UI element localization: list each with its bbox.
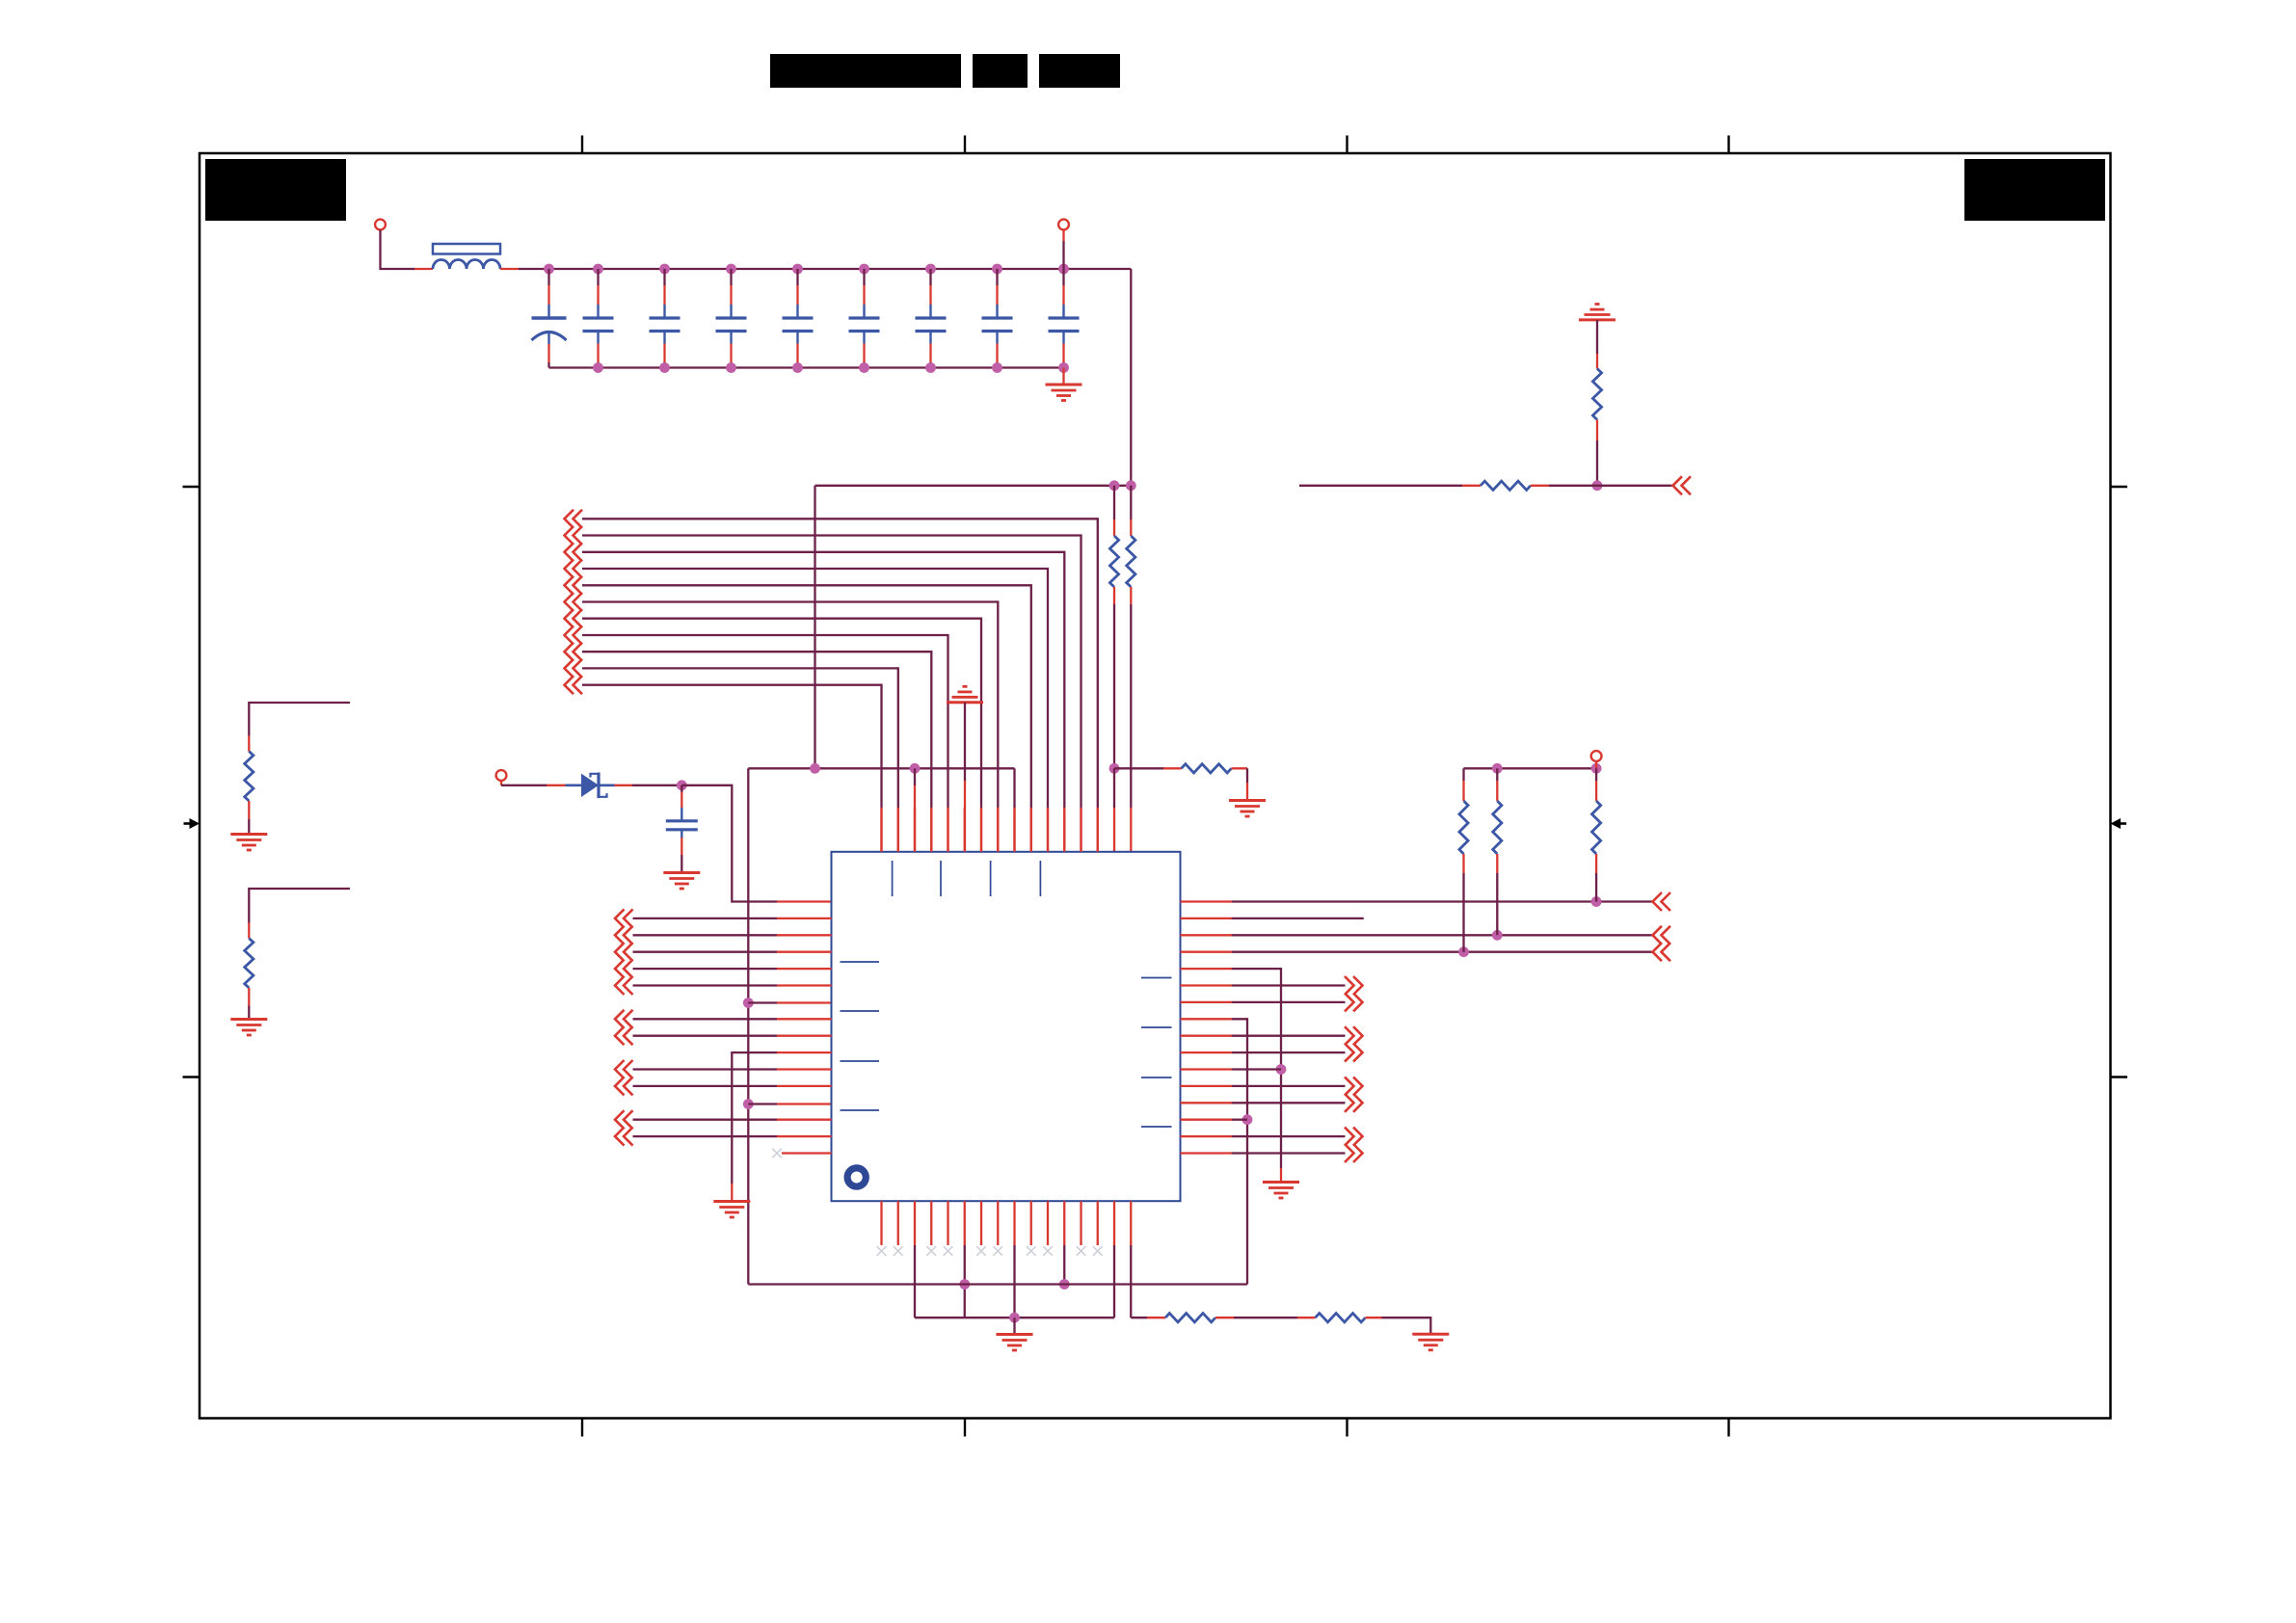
wire R9 to GND10	[248, 801, 250, 819]
wire bus9	[582, 652, 931, 808]
junction right pin3/Rb	[1492, 930, 1503, 941]
ic top pin stubs	[880, 808, 882, 852]
junction h2 gnd	[1009, 1313, 1020, 1323]
title redaction bar 1	[770, 54, 961, 88]
capacitor C6	[863, 305, 865, 318]
wire bus2	[582, 536, 1081, 809]
off-page arrow Rpin1	[1653, 892, 1663, 911]
wire bus7	[582, 619, 981, 808]
off-page arrow bus7	[565, 609, 574, 627]
wire IC right pin 10	[1181, 1051, 1233, 1053]
wire R7 to R8	[1215, 1317, 1234, 1318]
wire net776 vertical	[747, 768, 749, 1284]
wire to IC left pin 3	[633, 934, 778, 936]
resistor R5	[1493, 801, 1502, 854]
ic U1 internal tick top 3	[990, 861, 992, 896]
wire L1 corner to IC pin9	[1013, 768, 1015, 808]
off-page arrow Lpin3	[615, 926, 625, 945]
resistor R13	[1109, 536, 1118, 587]
wire net776 to pin L7	[748, 1001, 777, 1003]
off-page arrow Rpin9	[1353, 1026, 1363, 1045]
resistor R7	[1165, 1314, 1215, 1322]
ic U1 internal tick right 3	[1141, 1077, 1172, 1078]
capacitor C8 bottom lead	[996, 344, 998, 363]
border tick left 2	[183, 1076, 200, 1078]
off-page arrow Lpin4	[615, 943, 625, 961]
terminal J3	[496, 770, 507, 781]
wire GND2 to R1	[1596, 320, 1598, 354]
capacitor C9 bottom lead	[1062, 344, 1064, 363]
wire to IC left pin 10 (grounded)	[732, 1052, 777, 1184]
wire D1 to node	[615, 785, 633, 786]
capacitor C6 top lead	[863, 269, 865, 285]
junction bottom rail 4	[792, 362, 803, 373]
off-page arrow Lpin2	[615, 909, 625, 927]
resistor R3	[1182, 764, 1232, 773]
wire bus4	[582, 569, 1048, 808]
capacitor C10	[681, 808, 682, 821]
wire node B to R14col	[1130, 486, 1132, 519]
capacitor C7	[929, 305, 931, 318]
junction diode node	[677, 780, 687, 790]
off-page arrow Rpin15	[1353, 1128, 1363, 1146]
resistor R14	[1127, 536, 1135, 587]
border arrow right	[2119, 822, 2127, 825]
wire IC right pin 12	[1181, 1085, 1233, 1087]
capacitor C4 bottom lead	[730, 344, 732, 363]
off-page arrow bus4	[565, 560, 574, 578]
off-page arrow bus3	[565, 543, 574, 561]
capacitor C10 top lead	[681, 785, 682, 792]
junction gndcol pin11	[1276, 1064, 1287, 1075]
ic U1 pin1 marker	[847, 1168, 866, 1186]
wire GND3 to IC pin6	[964, 703, 966, 781]
ground GND1	[1046, 384, 1082, 386]
off-page arrow bus8	[565, 626, 574, 645]
capacitor C4	[730, 305, 732, 318]
capacitor C8 top lead	[996, 269, 998, 285]
wire bottom pin6 down	[964, 1245, 966, 1317]
wire to IC left pin 6	[633, 984, 778, 986]
wire IC right pin14	[1181, 1119, 1233, 1121]
wire node A to R3col	[1113, 486, 1115, 519]
border tick bottom 4	[1727, 1419, 1729, 1437]
wire R6 top lead	[1595, 768, 1597, 781]
terminal J1	[375, 220, 386, 230]
off-page arrow Rpin3	[1653, 926, 1663, 945]
wire IC right pin1 net	[1181, 900, 1233, 902]
resistor R10	[245, 939, 254, 988]
wire R1 to node	[1596, 420, 1598, 441]
wire R14 to pin16	[1130, 587, 1132, 604]
no-connect bottom pin 2	[894, 1246, 903, 1256]
ic U1 internal tick left 2	[841, 1010, 880, 1012]
off-page arrow Lpin9	[615, 1026, 625, 1045]
wire bus5	[582, 585, 1031, 808]
wire IC right pin11	[1181, 1068, 1233, 1070]
capacitor C8	[996, 305, 998, 318]
wire IC right pin 13	[1181, 1102, 1233, 1104]
junction pin15 node	[1109, 763, 1120, 774]
wire IC right pin8 down	[1181, 1018, 1233, 1020]
off-page arrow Lpin14	[615, 1110, 625, 1129]
wire vdd distribution horizontal	[815, 485, 1132, 487]
resistor R4	[1459, 801, 1468, 854]
wire rail corner down	[1130, 269, 1132, 486]
ground GND3 (power flag)	[963, 685, 968, 688]
ic U1 internal tick right 2	[1141, 1026, 1172, 1028]
border frame	[200, 153, 2111, 1419]
junction net776 pin L7	[743, 998, 754, 1008]
wire bottom cap rail	[549, 366, 1064, 368]
capacitor C9	[1062, 305, 1064, 318]
wire R2 to arrow	[1531, 485, 1549, 487]
wire pin-row node line L1	[748, 767, 1014, 769]
title redaction bar 2	[973, 54, 1028, 88]
off-page arrow Lpin6	[615, 976, 625, 995]
junction rail cap 4	[726, 264, 736, 275]
capacitor C7 top lead	[929, 269, 931, 285]
wire bottom pin16 down	[1130, 1245, 1132, 1317]
junction rail Rc/J4	[1591, 763, 1602, 774]
capacitor C1 (polarized) top lead	[547, 269, 549, 285]
border tick bottom 3	[1346, 1419, 1348, 1437]
ground GND9	[1412, 1333, 1449, 1336]
off-page arrow net1	[1673, 476, 1683, 494]
wire R10 to GND11	[248, 988, 250, 1006]
wire rail to ground GND1	[1062, 368, 1064, 386]
corner label box top-right	[1964, 159, 2105, 221]
wire bottom rail h1	[748, 1283, 1247, 1285]
no-connect bottom pin 8	[993, 1246, 1002, 1256]
off-page arrow bus5	[565, 576, 574, 595]
ground GND6	[713, 1200, 750, 1203]
wire IC right pin 6	[1181, 984, 1233, 986]
junction bottom rail 5	[859, 362, 869, 373]
junction x1294 pin14	[1242, 1114, 1253, 1125]
wire L1 down to IC pin3	[914, 768, 916, 785]
capacitor C5 bottom lead	[796, 344, 798, 363]
junction rail cap 8	[992, 264, 1002, 275]
resistor R2	[1481, 481, 1531, 490]
junction net776 pin L13	[743, 1099, 754, 1109]
junction vdd node B	[1126, 480, 1136, 491]
wire to IC left pin 4	[633, 951, 778, 953]
off-page arrow Rpin10	[1353, 1044, 1363, 1062]
no-connect bottom pin 4	[926, 1246, 936, 1256]
ground GND4	[1229, 799, 1266, 802]
capacitor C5 top lead	[796, 269, 798, 285]
capacitor C9 top lead	[1062, 269, 1064, 285]
wire J3 to D1	[500, 781, 502, 785]
off-page arrow Lpin11	[615, 1060, 625, 1078]
off-page arrow bus9	[565, 643, 574, 661]
wire IC right pin 15	[1181, 1135, 1233, 1137]
junction bottom rail 8	[1058, 362, 1069, 373]
border tick right 2	[2111, 1076, 2128, 1078]
wire h2 gnd stem	[1013, 1317, 1015, 1334]
ic U1 internal tick right 4	[1141, 1126, 1172, 1128]
off-page arrow Rpin4	[1653, 943, 1663, 961]
wire pin16 to R7	[1131, 1317, 1147, 1318]
junction rail cap 1	[544, 264, 554, 275]
junction bottom rail 3	[726, 362, 736, 373]
capacitor C4 top lead	[730, 269, 732, 285]
resistor R6	[1592, 801, 1601, 854]
inductor L1	[433, 244, 500, 254]
junction right pin4/Ra	[1458, 946, 1469, 957]
wire IC right pin5 to gnd col	[1181, 968, 1233, 970]
ground GND7	[1263, 1181, 1299, 1184]
border tick right 1	[2111, 486, 2128, 488]
border tick top 3	[1346, 136, 1348, 154]
wire to IC left pin 14	[633, 1119, 778, 1121]
junction bottom rail 7	[992, 362, 1002, 373]
diode D1 (schottky)	[566, 784, 582, 786]
no-connect bottom pin 11	[1043, 1246, 1053, 1256]
ic U1 body	[832, 852, 1181, 1201]
ic bottom pin stubs	[880, 1201, 882, 1245]
wire bus1	[582, 519, 1098, 808]
capacitor C3 bottom lead	[663, 344, 665, 363]
off-page arrow bus2	[565, 526, 574, 545]
wire R13 to pin15	[1113, 587, 1115, 604]
wire left of R2	[1299, 485, 1462, 487]
no-connect bottom pin 5	[944, 1246, 953, 1256]
wire bus10	[582, 668, 898, 808]
capacitor C2	[597, 305, 599, 318]
wire to IC left pin 2	[633, 918, 778, 919]
junction h1 pin12	[1059, 1279, 1070, 1290]
wire bus3	[582, 552, 1064, 808]
junction right pin1/Rc	[1591, 896, 1602, 907]
capacitor C3	[663, 305, 665, 318]
border tick left 1	[183, 486, 200, 488]
wire IC right pin2 stub	[1181, 918, 1233, 919]
ic U1 internal tick top 4	[1039, 861, 1041, 896]
ground GND11	[230, 1018, 267, 1021]
junction rail cap 3	[659, 264, 670, 275]
off-page arrow Rpin12	[1353, 1077, 1363, 1095]
junction rail Rb	[1492, 763, 1503, 774]
off-page arrow bus10	[565, 659, 574, 678]
wire to IC left pin 9	[633, 1035, 778, 1037]
wire to IC left pin 15	[633, 1135, 778, 1137]
wire to IC left pin 5	[633, 968, 778, 970]
wire IC right pin 7	[1181, 1001, 1233, 1003]
ground GND2 (power flag)	[1595, 303, 1600, 306]
no-connect bottom pin 7	[976, 1246, 986, 1256]
border tick top 4	[1727, 136, 1729, 154]
resistor R1	[1592, 369, 1601, 420]
no-connect Lpin16	[772, 1149, 782, 1158]
wire bottom rail h2	[915, 1317, 1114, 1318]
capacitor C6 bottom lead	[863, 344, 865, 363]
wire top supply rail	[519, 268, 1131, 270]
wire IC right pin 9	[1181, 1035, 1233, 1037]
no-connect bottom pin 14	[1093, 1246, 1103, 1256]
wire J1 to inductor	[381, 230, 415, 270]
wire IC left pin16 stub (nc)	[782, 1152, 832, 1154]
wire vdd down at x845	[814, 486, 815, 769]
capacitor C10 bottom lead	[681, 838, 682, 855]
wire to IC left pin 11	[633, 1068, 778, 1070]
wire bottom pin12 down	[1063, 1245, 1065, 1285]
ground GND10	[230, 833, 267, 836]
wire bottom pin3 down	[914, 1245, 916, 1317]
capacitor C1 (polarized)	[547, 305, 549, 318]
border tick top 2	[964, 136, 966, 154]
ic U1 internal tick right 1	[1141, 977, 1172, 979]
off-page arrow bus6	[565, 593, 574, 611]
junction h1 pin6	[959, 1279, 970, 1290]
junction rail cap 7	[925, 264, 936, 275]
off-page arrow bus1	[565, 510, 574, 528]
wire bus8	[582, 635, 948, 808]
junction bottom rail 6	[925, 362, 936, 373]
off-page arrow Lpin15	[615, 1128, 625, 1146]
off-page arrow Lpin12	[615, 1077, 625, 1095]
capacitor C2 bottom lead	[597, 344, 599, 363]
wire bus11	[582, 685, 882, 808]
wire IC right pin 16	[1181, 1152, 1233, 1154]
ic U1 internal tick top 2	[940, 861, 942, 896]
wire bottom pin9 down	[1013, 1245, 1015, 1317]
junction L1 at x949	[910, 763, 921, 774]
ground GND8	[997, 1333, 1033, 1336]
capacitor C2 top lead	[597, 269, 599, 285]
border tick bottom 1	[581, 1419, 583, 1437]
capacitor C3 top lead	[663, 269, 665, 285]
no-connect bottom pin 13	[1077, 1246, 1086, 1256]
wire inductor to rail	[500, 268, 519, 270]
wire node to IC pin L1	[681, 785, 777, 902]
wire bus6	[582, 602, 998, 809]
wire pin15 stub	[1113, 768, 1115, 808]
ic U1 internal tick left 4	[841, 1109, 880, 1111]
wire R5 bottom lead	[1496, 854, 1498, 873]
junction bottom rail 1	[593, 362, 603, 373]
resistor R8	[1316, 1314, 1366, 1322]
off-page arrow Rpin7	[1353, 993, 1363, 1011]
wire net776 to pin L13	[748, 1103, 777, 1104]
wire IC right pin3 net	[1181, 934, 1233, 936]
junction bottom rail 2	[659, 362, 670, 373]
border arrow left	[184, 822, 193, 825]
ic U1 internal tick top 1	[892, 861, 894, 896]
wire L2	[1114, 767, 1163, 769]
wire to IC left pin 12	[633, 1085, 778, 1087]
junction L1 at x845	[810, 763, 820, 774]
wire bias1 top	[249, 703, 350, 736]
wire R6 bottom lead	[1595, 854, 1597, 873]
wire pullup rail	[1464, 767, 1597, 769]
wire R8 to GND9	[1366, 1317, 1382, 1318]
wire to IC left pin 8	[633, 1018, 778, 1020]
junction rail cap 5	[792, 264, 803, 275]
terminal J4	[1591, 751, 1602, 761]
title redaction bar 3	[1039, 54, 1120, 88]
wire R4 bottom lead	[1462, 854, 1464, 873]
wire J2 stub	[1062, 230, 1064, 242]
corner label box top-left	[205, 159, 346, 221]
ic U1 internal tick left 1	[841, 961, 880, 963]
wire R5 top lead	[1496, 768, 1498, 781]
junction R1 node	[1592, 480, 1603, 491]
border tick bottom 2	[964, 1419, 966, 1437]
off-page arrow bus11	[565, 676, 574, 694]
wire IC right pin4 net	[1181, 951, 1233, 953]
junction rail cap 6	[859, 264, 869, 275]
ic U1 internal tick left 3	[841, 1060, 880, 1062]
off-page arrow Rpin16	[1353, 1144, 1363, 1162]
terminal J2	[1058, 220, 1069, 230]
wire bias2 top	[249, 889, 350, 923]
wire R4 top lead	[1462, 768, 1464, 781]
capacitor C7 bottom lead	[929, 344, 931, 363]
wire bottom pin15 down	[1113, 1245, 1115, 1317]
ground GND5	[663, 871, 700, 874]
junction rail cap 9	[1058, 264, 1069, 275]
junction vdd node A	[1109, 480, 1120, 491]
off-page arrow Lpin5	[615, 960, 625, 978]
off-page arrow Lpin8	[615, 1010, 625, 1028]
capacitor C1 bottom lead	[547, 344, 549, 362]
wire R3 to GND4	[1232, 767, 1248, 769]
no-connect bottom pin 10	[1027, 1246, 1036, 1256]
capacitor C5	[796, 305, 798, 318]
no-connect bottom pin 1	[877, 1246, 887, 1256]
off-page arrow Rpin13	[1353, 1094, 1363, 1112]
resistor R9	[245, 752, 254, 801]
border tick top 1	[581, 136, 583, 154]
off-page arrow Rpin6	[1353, 976, 1363, 995]
junction rail cap 2	[593, 264, 603, 275]
